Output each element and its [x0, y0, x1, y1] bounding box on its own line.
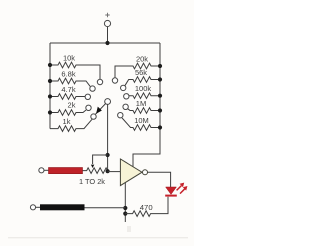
svg-text:100k: 100k: [135, 84, 152, 93]
resistor R10 10M: [118, 113, 160, 131]
resistor R3 4.7k: [50, 94, 91, 100]
node: + rail junction: [105, 41, 109, 45]
red test lead terminal: [39, 168, 44, 173]
node: 20k right: [158, 64, 162, 68]
rotary switch S1 wiper hub: [96, 99, 111, 115]
node: 6.8k left: [48, 79, 52, 83]
LED D1: [165, 187, 177, 197]
node: 10k left: [48, 63, 52, 67]
svg-text:10k: 10k: [63, 53, 75, 62]
node: 56k right: [158, 77, 162, 81]
left bus wire: [49, 43, 51, 129]
wire: terminal to red probe: [44, 169, 49, 171]
node: 4.7k left: [48, 94, 52, 98]
LED emission arrows: [177, 183, 188, 194]
svg-text:56k: 56k: [135, 68, 147, 77]
svg-text:6.8k: 6.8k: [61, 69, 75, 78]
node: 1M right: [158, 108, 162, 112]
node: 470 junction: [123, 212, 127, 216]
scan artifact line: [8, 237, 188, 238]
node: 100k right: [158, 94, 162, 98]
svg-text:4.7k: 4.7k: [61, 85, 75, 94]
svg-text:20k: 20k: [136, 55, 148, 64]
resistor R4 2k: [50, 105, 91, 115]
svg-text:1 TO 2k: 1 TO 2k: [79, 177, 105, 186]
resistor R11 470: [125, 197, 168, 217]
black probe body: [40, 204, 85, 210]
right bus wire: [133, 43, 160, 167]
black test lead terminal: [30, 205, 35, 210]
svg-text:10M: 10M: [134, 116, 149, 125]
resistor R2 6.8k: [50, 78, 95, 91]
resistor R7 56k: [121, 77, 161, 91]
node: 10M right: [158, 125, 162, 129]
wire: pot wiper tap: [93, 155, 108, 164]
positive terminal: [104, 13, 110, 43]
resistor R5 1k: [50, 114, 96, 132]
node: black probe junction: [123, 206, 127, 210]
svg-text:2k: 2k: [68, 101, 76, 110]
potentiometer 1 TO 2k: [83, 168, 109, 174]
node: 2k left: [48, 110, 52, 114]
node: pot right end: [106, 169, 110, 173]
resistor R6 20k: [112, 63, 160, 83]
svg-text:1M: 1M: [136, 99, 146, 108]
node: wiper/pot-wiper junction: [106, 153, 110, 157]
op-amp U1: [120, 159, 147, 186]
resistor R9 1M: [123, 104, 160, 113]
wire: black probe to junction: [85, 207, 126, 209]
resistor R1 10k: [50, 62, 103, 85]
wire: terminal to black probe: [36, 206, 40, 208]
wire: wiper bus down: [107, 104, 109, 171]
wire: output to LED: [148, 172, 171, 187]
red probe body: [49, 168, 83, 174]
resistor R8 100k: [124, 93, 160, 99]
pot wiper arrowhead: [91, 165, 94, 168]
top supply rail: [50, 42, 160, 44]
wire: to comparator input: [108, 171, 121, 173]
wire: lower input down: [124, 183, 126, 223]
svg-text:1k: 1k: [63, 117, 71, 126]
svg-text:470: 470: [140, 203, 153, 212]
